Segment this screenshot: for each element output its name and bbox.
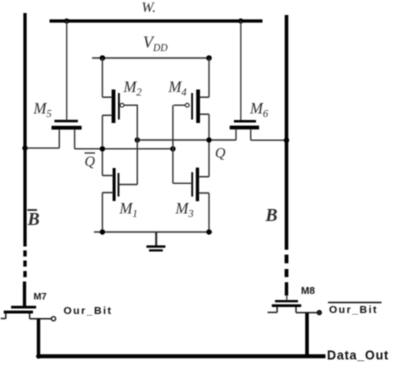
wire M2 drain down (Q-bar rail): [101, 115, 103, 175]
wire M4 drain down (Q rail): [208, 114, 210, 177]
junction ground left: [100, 229, 105, 234]
svg-text:M8: M8: [301, 286, 315, 297]
svg-text:B: B: [27, 209, 40, 229]
transistor M7: [1, 306, 56, 321]
svg-text:Q: Q: [215, 146, 226, 162]
junction Q wire / left gate rail: [135, 137, 140, 142]
junction bus left corner: [36, 354, 41, 359]
svg-text:Our_Bit: Our_Bit: [64, 305, 113, 317]
wire right gate rail: [172, 105, 174, 183]
junction Q wire / right output rail: [206, 137, 211, 142]
junction ground right: [206, 229, 211, 234]
node Q-bar wire: [75, 148, 174, 150]
wire M3 source down: [208, 193, 210, 232]
svg-text:Data_Out: Data_Out: [327, 349, 389, 363]
transistor M6 (access, right): [230, 120, 287, 140]
wire M5 gate lead: [66, 21, 68, 120]
svg-text:Q: Q: [85, 154, 96, 170]
svg-text:W.: W.: [142, 0, 156, 16]
bitline B (right vertical, solid part): [285, 15, 289, 250]
bus Data_Out: [37, 354, 326, 358]
junction Q-bar wire / left output rail: [100, 146, 105, 151]
junction VDD left: [100, 55, 106, 61]
word line W: [50, 19, 263, 22]
svg-text:Our_Bit: Our_Bit: [329, 304, 378, 316]
transistor M5 (access, left): [25, 120, 82, 149]
wire VDD to M2 source: [101, 58, 103, 97]
ground: [146, 232, 165, 250]
junction Q-bar wire / right gate rail: [170, 146, 175, 151]
wire M6 gate lead: [240, 21, 242, 120]
wire VDD to M4 source: [208, 58, 210, 97]
wire M7 drain to bus (thick): [37, 319, 40, 357]
wire M1 source down: [101, 193, 103, 232]
svg-text:M7: M7: [34, 292, 47, 303]
transistor M2 (PMOS): [102, 90, 138, 124]
junction on W for M5 gate: [64, 18, 69, 23]
wire M8 drain to bus (thick): [305, 313, 309, 356]
junction M6 drain to B: [284, 138, 289, 143]
wire left gate rail: [136, 105, 138, 184]
svg-text:B: B: [265, 205, 278, 225]
junction M5 source to B-bar: [22, 145, 27, 150]
transistor M4 (PMOS): [174, 90, 209, 124]
transistor M1 (NMOS): [102, 168, 137, 201]
label Our_Bit-bar right: [328, 303, 382, 317]
bitline B dashed segment: [285, 255, 289, 278]
junction on W for M6 gate: [238, 18, 243, 23]
bitline B-bar lower solid segment: [23, 282, 26, 307]
node Q wire: [137, 139, 236, 141]
transistor M3 (NMOS): [173, 168, 209, 202]
power rail VDD: [92, 57, 211, 59]
ground wire: [94, 231, 212, 233]
bitline B-bar (left vertical, solid part): [23, 13, 26, 247]
junction VDD right: [206, 55, 212, 61]
label Q-bar: [85, 153, 96, 170]
transistor M8: [268, 300, 322, 315]
bitline B-bar dashed segment: [23, 250, 26, 277]
label B-bar: [27, 209, 40, 229]
bitline B lower solid segment: [285, 282, 288, 295]
